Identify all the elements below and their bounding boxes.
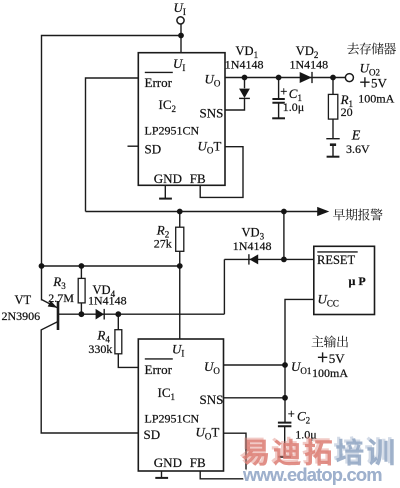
wire IC2 Error to alarm rail — [86, 78, 139, 212]
wire R1 branch — [332, 78, 334, 157]
wire VD1 branch to SNS — [225, 78, 245, 111]
svg-text:UI: UI — [173, 56, 185, 73]
wire R3 stems — [80, 266, 82, 314]
svg-text:VT: VT — [15, 293, 32, 307]
wire U_I stem — [180, 24, 182, 53]
svg-text:1.0μ: 1.0μ — [283, 100, 304, 114]
svg-text:100mA: 100mA — [312, 366, 348, 380]
svg-text:UOT: UOT — [196, 425, 220, 442]
alarm arrowhead — [317, 207, 329, 216]
wire input top rail — [42, 36, 182, 301]
svg-text:1N4148: 1N4148 — [225, 57, 264, 71]
resistor R1 — [328, 94, 337, 119]
label qu-cun-chu-qi (to memory) — [347, 43, 396, 55]
svg-text:UO: UO — [205, 71, 221, 88]
ground below C2 — [278, 456, 291, 458]
svg-text:SNS: SNS — [200, 392, 224, 407]
wire mid rail R3 row — [42, 265, 180, 267]
label zhu-shu-chu (main output) — [312, 336, 348, 348]
wire IC1 GND stem — [161, 471, 163, 478]
svg-text:UCC: UCC — [318, 292, 339, 309]
svg-text:330k: 330k — [88, 342, 112, 356]
IC2 pin label Error with overline — [145, 71, 173, 73]
svg-text:20: 20 — [341, 105, 353, 119]
diode VD2 (series, pointing right) — [300, 72, 312, 83]
transistor VT emitter wire — [42, 300, 58, 308]
wire VD3 line to uP RESET — [224, 258, 313, 260]
diode VD3 (pointing left) — [249, 254, 258, 264]
svg-text:IC1: IC1 — [158, 385, 176, 402]
wire alarm to VD3 drop — [283, 212, 285, 260]
svg-text:2N3906: 2N3906 — [2, 309, 41, 323]
wire IC2 GND stem — [164, 185, 166, 198]
ground below IC2 GND — [159, 198, 172, 200]
terminal circle U_O2 — [345, 74, 353, 82]
svg-text:3.6V: 3.6V — [346, 142, 370, 156]
resistor R4 — [115, 330, 122, 354]
svg-text:GND: GND — [154, 171, 182, 186]
wire R4 stems — [118, 314, 138, 367]
wire IC2 U_OT-FB loop — [200, 147, 243, 198]
ground below battery E — [327, 156, 340, 158]
transistor VT base bar — [57, 301, 60, 330]
svg-text:UOT: UOT — [198, 138, 222, 155]
wire IC2 U_O output line — [225, 77, 345, 79]
svg-text:SD: SD — [145, 142, 162, 157]
svg-text:LP2951CN: LP2951CN — [145, 412, 200, 426]
watermark yidituo (red) — [240, 436, 332, 465]
wire R2 branch / IC1 U_I feed — [179, 212, 181, 340]
svg-text:SD: SD — [144, 427, 161, 442]
op-amp IC1 box (LP2951CN) — [138, 339, 223, 471]
wire early-warning alarm line — [86, 211, 319, 213]
capacitor C1 plates — [272, 99, 284, 103]
label zao-qi-bao-jing (early warning) — [333, 209, 383, 221]
svg-text:IC2: IC2 — [159, 97, 177, 114]
svg-text:C2: C2 — [297, 409, 310, 426]
wire IC1 SNS to rail — [224, 397, 286, 399]
svg-text:1N4148: 1N4148 — [233, 239, 272, 253]
wire C2 stem — [284, 426, 286, 456]
svg-text:27k: 27k — [154, 236, 172, 250]
ground below C1 — [272, 117, 285, 119]
svg-text:μ P: μ P — [349, 274, 366, 288]
op-amp IC2 box (LP2951CN) — [138, 53, 225, 186]
label +5V memory plus sign — [360, 77, 369, 87]
wire uP UCC to main rail — [285, 299, 314, 422]
watermark peixun (blue) — [334, 436, 394, 465]
diode VD1 (vertical, anode up) — [239, 89, 250, 98]
svg-text:www.edatop.com: www.edatop.com — [242, 464, 382, 485]
svg-text:UI: UI — [174, 0, 186, 17]
transistor VT collector wire — [41, 322, 138, 434]
terminal circle U_I — [177, 17, 184, 24]
svg-text:2.7M: 2.7M — [48, 291, 74, 305]
svg-text:FB: FB — [190, 455, 206, 470]
svg-text:5V: 5V — [329, 351, 346, 366]
microprocessor uP box — [314, 246, 375, 314]
svg-text:+: + — [280, 85, 287, 99]
svg-text:R3: R3 — [52, 274, 66, 291]
wire IC2 SD stub — [128, 145, 139, 147]
svg-text:SNS: SNS — [200, 106, 224, 121]
svg-text:RESET: RESET — [317, 253, 356, 267]
uP pin label RESET with overline — [317, 251, 357, 253]
label +5V main plus sign — [318, 352, 327, 362]
ground below IC1 GND — [155, 477, 168, 479]
svg-text:1N4148: 1N4148 — [88, 293, 127, 307]
svg-text:UO1: UO1 — [291, 359, 311, 376]
svg-text:Error: Error — [145, 362, 173, 377]
wire VD3 drop to VD4 line — [223, 259, 225, 314]
wire C1 branch — [278, 78, 280, 118]
transistor VT emitter arrowhead — [48, 301, 58, 308]
wire IC1 U_OT-FB loop — [200, 433, 246, 479]
wire IC1 U_O to U_O1 node — [224, 364, 286, 366]
wire VD4 base line — [58, 313, 224, 315]
svg-text:Error: Error — [145, 75, 173, 90]
svg-text:1N4148: 1N4148 — [290, 57, 329, 71]
diode VD4 (pointing right) — [96, 309, 104, 320]
svg-text:UO: UO — [204, 359, 220, 376]
svg-text:100mA: 100mA — [358, 91, 394, 105]
svg-text:UI: UI — [172, 342, 184, 359]
svg-text:5V: 5V — [371, 75, 388, 90]
capacitor C2 plates — [278, 423, 292, 427]
svg-text:+: + — [288, 407, 295, 421]
resistor R2 — [176, 227, 184, 251]
battery E plates — [326, 138, 339, 140]
svg-text:GND: GND — [154, 455, 182, 470]
resistor R3 — [78, 278, 85, 303]
svg-text:LP2951CN: LP2951CN — [145, 123, 200, 137]
IC1 pin label Error with overline — [145, 358, 173, 360]
svg-text:FB: FB — [190, 171, 206, 186]
